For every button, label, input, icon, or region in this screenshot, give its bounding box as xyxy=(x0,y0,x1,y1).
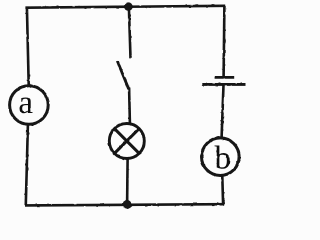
lamp L1 circle xyxy=(109,124,144,159)
lamp L1 cross stroke 2 xyxy=(114,129,139,154)
wire: left side lower (meter a to bottom corner) xyxy=(26,125,28,205)
wire: top side of loop xyxy=(25,6,225,8)
switch S1 open blade xyxy=(117,61,129,89)
svg-text:a: a xyxy=(18,85,33,121)
wire: middle branch upper (top node to switch contact) xyxy=(129,8,131,58)
wire: lamp to bottom node xyxy=(126,159,129,205)
node: bottom junction dot xyxy=(123,200,132,209)
wire: right side upper (corner to battery) xyxy=(222,6,225,76)
meter a circle xyxy=(10,86,49,125)
wire: left side upper (corner to meter a) xyxy=(27,7,29,85)
battery B1 long plate (bottom) xyxy=(202,83,245,86)
wire: switch to lamp xyxy=(128,88,131,123)
wire: right side middle (battery to meter b) xyxy=(222,85,224,137)
wire: right side lower (meter b to bottom corner) xyxy=(221,176,224,204)
battery B1 short plate (top) xyxy=(215,76,235,79)
wire: bottom side of loop xyxy=(25,204,224,205)
lamp L1 cross stroke 1 xyxy=(114,129,139,154)
meter b circle xyxy=(202,138,240,176)
svg-text:b: b xyxy=(215,141,232,177)
node: top junction dot xyxy=(124,2,133,11)
